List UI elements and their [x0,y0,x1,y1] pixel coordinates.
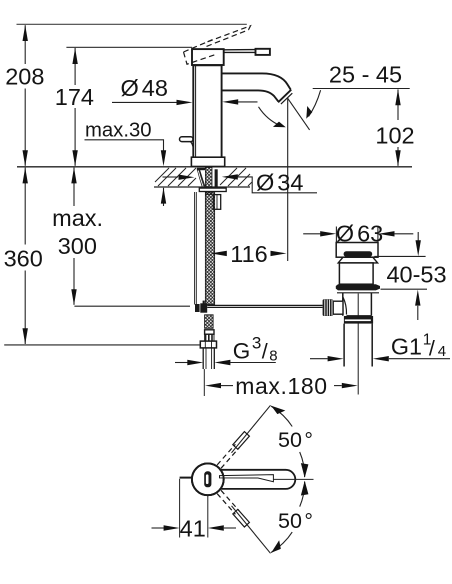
extension line below tube [203,369,205,396]
dimension max.180 [205,383,221,388]
mounting nut / washer [199,188,226,191]
tailpipe [344,324,372,367]
dashed lever (open position) [206,26,251,47]
svg-text:max.: max. [52,205,103,231]
upper dashed lever at 50deg [217,432,249,469]
pop-up rod below counter [194,192,196,305]
cap plate [338,257,377,263]
svg-text:300: 300 [58,233,97,259]
lower body [343,293,372,316]
top reference line (208 datum) [17,23,247,25]
dimension max.300 line [73,168,75,305]
fixing block right of shank [213,195,220,210]
upper body [339,263,373,284]
dashed tilted cap (open position) [184,40,217,65]
rod tick at rear [180,477,192,479]
dimension Ø63 [335,227,337,243]
curved arrow left of stream [259,107,282,126]
svg-text:116: 116 [230,241,267,267]
faucet cartridge cap [192,49,224,65]
flexible supply hose (crosshatched) [205,192,214,305]
counter hatching left [155,168,196,186]
knob connector [333,301,343,314]
dimension 208 line [24,25,26,166]
upper 50deg extension line [232,405,271,453]
svg-text:max.180: max.180 [235,373,327,399]
counter bottom line [154,186,250,188]
svg-text:50°: 50° [278,428,313,452]
svg-text:25 - 45: 25 - 45 [329,61,402,87]
svg-text:Ø34: Ø34 [256,170,303,196]
svg-text:360: 360 [4,246,43,272]
drain valve: plug disc [336,243,378,258]
svg-text:40-53: 40-53 [386,262,446,288]
dimension 174 line [74,48,76,166]
second reference line (174 datum) [66,46,192,48]
dimension 40-53 [417,232,419,241]
G3/8 hose nut [200,341,216,348]
svg-text:/: / [262,340,268,364]
pop-up rod knob at rear of body [180,137,194,147]
svg-text:50°: 50° [278,509,313,533]
hose lower section to G3/8 [205,315,214,329]
svg-text:max.30: max.30 [85,120,152,142]
rod joint block [203,301,205,305]
dimension 360 line [24,168,26,344]
svg-text:G1: G1 [391,334,422,360]
bottom reference line (360 datum) [4,344,200,346]
faucet base [191,157,224,166]
mounting shank cross-section [205,168,212,195]
flange underside line [337,292,379,294]
svg-text:4: 4 [438,343,446,360]
dimension 102 [397,89,399,165]
G3/8 arrows [175,362,188,364]
horizontal pop-up linkage rod [74,305,190,307]
counter top line [17,166,412,168]
re-draw circle over lever overlap [192,463,224,495]
svg-text:102: 102 [375,123,414,149]
plug stem centerline [357,294,359,395]
lever top view [220,470,296,489]
knurled adjuster knob [323,299,334,316]
faucet body [193,66,221,158]
water stream angle lines [287,98,289,261]
lever slot wedge [220,475,274,482]
centerline to the right [273,478,313,480]
dimension 41 [179,479,181,538]
Ø48 right-side arrow [236,101,258,103]
svg-text:Ø63: Ø63 [336,220,383,246]
upper 50deg arc [271,406,305,477]
counter hatching right [220,168,252,186]
plug button (black) [344,251,373,256]
svg-text:3: 3 [252,334,261,353]
svg-text:208: 208 [5,64,44,90]
body circle [192,463,224,495]
lower dashed lever at 50deg [217,490,249,527]
svg-text:Ø48: Ø48 [121,75,168,101]
svg-text:/: / [429,337,435,361]
flange (black) [336,284,380,290]
lower 50deg arc [271,482,305,553]
lower 50deg extension line [232,506,271,554]
curved arrow from 25-45 line [309,90,321,116]
cartridge slot [204,471,211,487]
G3/8 threaded tube [203,348,214,369]
solid lever bar [224,50,256,53]
lever paddle tip [256,49,270,55]
svg-text:G: G [233,338,251,363]
dimension 116 [211,251,227,256]
bottom collar (black with slit) [344,316,373,324]
svg-text:174: 174 [55,84,94,110]
spout [222,73,293,104]
svg-text:41: 41 [180,516,206,542]
